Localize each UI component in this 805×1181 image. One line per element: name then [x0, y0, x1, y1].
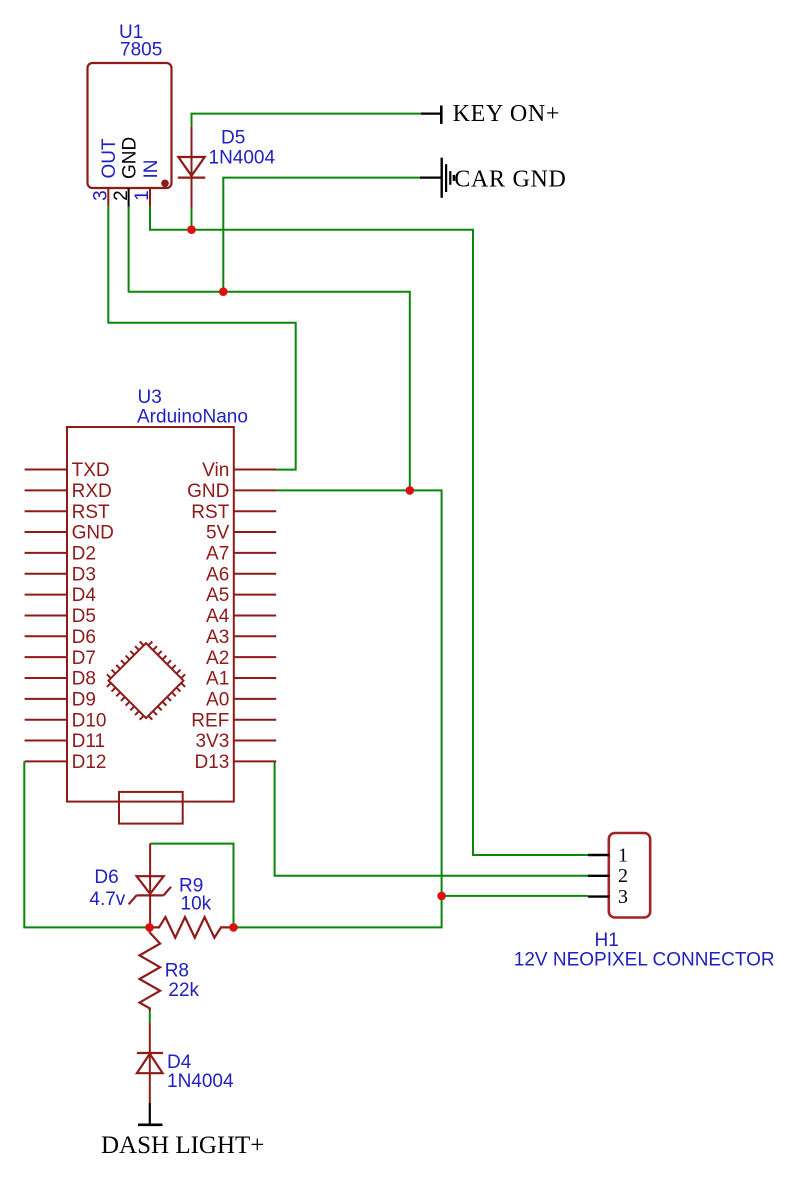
svg-text:CAR GND: CAR GND: [454, 167, 566, 193]
svg-text:D6: D6: [94, 867, 118, 888]
U3 right pin A3: [234, 635, 276, 637]
svg-text:RST: RST: [191, 502, 229, 523]
U3 right pin A2: [234, 656, 276, 658]
H1 pin 2: [588, 875, 610, 877]
U3 left pin D5: [25, 615, 67, 617]
svg-text:D6: D6: [72, 627, 96, 648]
U1 pin 3 stub (OUT): [107, 188, 109, 206]
wire GND net (down to R9 right end): [234, 896, 442, 928]
U3 left pin RXD: [25, 489, 67, 491]
svg-text:ArduinoNano: ArduinoNano: [137, 407, 248, 428]
svg-text:GND: GND: [72, 523, 114, 544]
U3 left pin D8: [25, 677, 67, 679]
U3 crystal rectangle at box bottom: [119, 792, 183, 824]
svg-text:H1: H1: [595, 930, 619, 951]
svg-text:D7: D7: [72, 648, 96, 669]
svg-text:DASH LIGHT+: DASH LIGHT+: [101, 1132, 264, 1159]
U3 right pin D13: [234, 760, 276, 762]
U3 left pin TXD: [25, 469, 67, 471]
terminal DASH LIGHT+: [138, 1103, 163, 1125]
U3 left pin GND: [25, 531, 67, 533]
svg-text:D12: D12: [72, 752, 107, 773]
U3 left pin D6: [25, 635, 67, 637]
U3 left pin D10: [25, 719, 67, 721]
svg-text:3V3: 3V3: [195, 731, 229, 752]
svg-text:RST: RST: [72, 502, 110, 523]
svg-text:REF: REF: [191, 710, 229, 731]
svg-text:D5: D5: [72, 606, 96, 627]
svg-text:A0: A0: [206, 690, 229, 711]
zener diode D6 4.7v: [129, 844, 171, 928]
wire GND net (U1 GND across and down): [129, 206, 410, 491]
svg-text:D9: D9: [72, 690, 96, 711]
svg-text:1: 1: [132, 190, 153, 201]
wire 12V net (U1 IN / D5 / H1 pin1): [150, 206, 588, 856]
svg-text:U3: U3: [138, 387, 162, 408]
junction GND/CAR GND: [219, 287, 228, 296]
voltage regulator U1 7805: [88, 63, 172, 188]
svg-text:1N4004: 1N4004: [167, 1071, 234, 1092]
H1 pin 3: [588, 895, 610, 897]
svg-text:D8: D8: [72, 669, 96, 690]
svg-text:A6: A6: [206, 564, 229, 585]
svg-text:D13: D13: [194, 752, 229, 773]
svg-text:D2: D2: [72, 544, 96, 565]
svg-text:A5: A5: [206, 585, 229, 606]
U3 left pin D9: [25, 698, 67, 700]
wire D13 net (to H1 pin2): [275, 761, 588, 875]
U3 left pin D12: [25, 760, 67, 762]
U3 right pin REF: [234, 719, 276, 721]
svg-text:IN: IN: [141, 160, 162, 179]
svg-text:1N4004: 1N4004: [209, 148, 276, 169]
U1 pin 1 stub (IN): [149, 188, 151, 206]
wire GND net (Arduino GND to H1 pin3): [276, 490, 588, 896]
svg-text:GND: GND: [187, 481, 229, 502]
svg-text:OUT: OUT: [99, 138, 120, 179]
microcontroller U3 ArduinoNano body: [67, 427, 234, 802]
junction R9 right / GND: [229, 923, 238, 932]
ground terminal CAR GND: [420, 158, 454, 198]
svg-text:KEY ON+: KEY ON+: [453, 101, 561, 127]
U3 right pin 5V: [234, 531, 276, 533]
U3 left pin RST: [25, 510, 67, 512]
svg-text:D4: D4: [167, 1052, 192, 1073]
diode D5 1N4004: [178, 126, 205, 207]
wire D6 cathode to R9 right (GND): [150, 844, 233, 928]
svg-text:GND: GND: [119, 137, 140, 179]
U3 left pin D11: [25, 740, 67, 742]
U1 pin 2 stub (GND): [128, 188, 130, 207]
U3 right pin A7: [234, 552, 276, 554]
H1 pin 1: [588, 854, 610, 856]
junction GND/H1 pin3: [437, 892, 446, 901]
svg-text:D4: D4: [72, 585, 97, 606]
svg-text:10k: 10k: [181, 894, 212, 915]
svg-text:22k: 22k: [168, 980, 199, 1001]
wire R8 to D4: [149, 1011, 151, 1024]
svg-text:A3: A3: [206, 627, 229, 648]
svg-text:D5: D5: [221, 127, 245, 148]
diode D4 1N4004: [137, 1023, 163, 1103]
svg-text:A1: A1: [206, 669, 229, 690]
U3 right pin A6: [234, 573, 276, 575]
svg-text:RXD: RXD: [72, 481, 112, 502]
svg-text:12V NEOPIXEL CONNECTOR: 12V NEOPIXEL CONNECTOR: [514, 950, 775, 971]
junction 12V/D5: [187, 225, 196, 234]
svg-text:2: 2: [618, 865, 628, 887]
wire D12 net (to divider midpoint): [24, 761, 149, 927]
U3 right pin A0: [234, 698, 276, 700]
svg-text:A4: A4: [206, 606, 230, 627]
svg-text:D10: D10: [72, 710, 107, 731]
svg-text:4.7v: 4.7v: [89, 889, 125, 910]
svg-text:2: 2: [111, 190, 132, 201]
U3 right pin 3V3: [234, 740, 276, 742]
U3 left pin D2: [25, 552, 67, 554]
U3 left pin D4: [25, 594, 67, 596]
svg-text:TXD: TXD: [72, 460, 110, 481]
svg-text:D3: D3: [72, 564, 96, 585]
resistor R8 22k: [140, 927, 161, 1010]
wire CAR GND net (terminal to GND junction): [223, 178, 420, 292]
resistor R9 10k: [150, 917, 234, 938]
U3 right pin A5: [234, 594, 276, 596]
U3 right pin GND: [234, 489, 276, 491]
U3 right pin RST: [234, 510, 276, 512]
U3 left pin D3: [25, 573, 67, 575]
wire D5 cathode to 12V junction: [191, 207, 193, 230]
svg-text:D11: D11: [72, 731, 105, 752]
svg-text:3: 3: [91, 190, 112, 201]
wire KEY ON+ net (D5 to terminal): [192, 114, 422, 127]
wire OUT net (U1 OUT to Arduino Vin): [108, 206, 295, 470]
U3 right pin Vin: [234, 469, 276, 471]
junction GND at Arduino: [406, 486, 415, 495]
U3 chip glyph (rotated QFP icon): [101, 635, 192, 726]
svg-text:R8: R8: [165, 961, 189, 982]
connector H1 body: [609, 833, 650, 918]
svg-text:A7: A7: [206, 544, 229, 565]
svg-text:5V: 5V: [206, 523, 230, 544]
junction divider midpoint: [145, 923, 154, 932]
svg-text:Vin: Vin: [202, 460, 229, 481]
U3 right pin A4: [234, 615, 276, 617]
terminal KEY ON+: [421, 106, 441, 124]
svg-text:A2: A2: [206, 648, 229, 669]
svg-text:7805: 7805: [120, 40, 162, 61]
U3 left pin D7: [25, 656, 67, 658]
svg-text:3: 3: [618, 886, 628, 908]
svg-text:1: 1: [618, 844, 628, 866]
U3 right pin A1: [234, 677, 276, 679]
